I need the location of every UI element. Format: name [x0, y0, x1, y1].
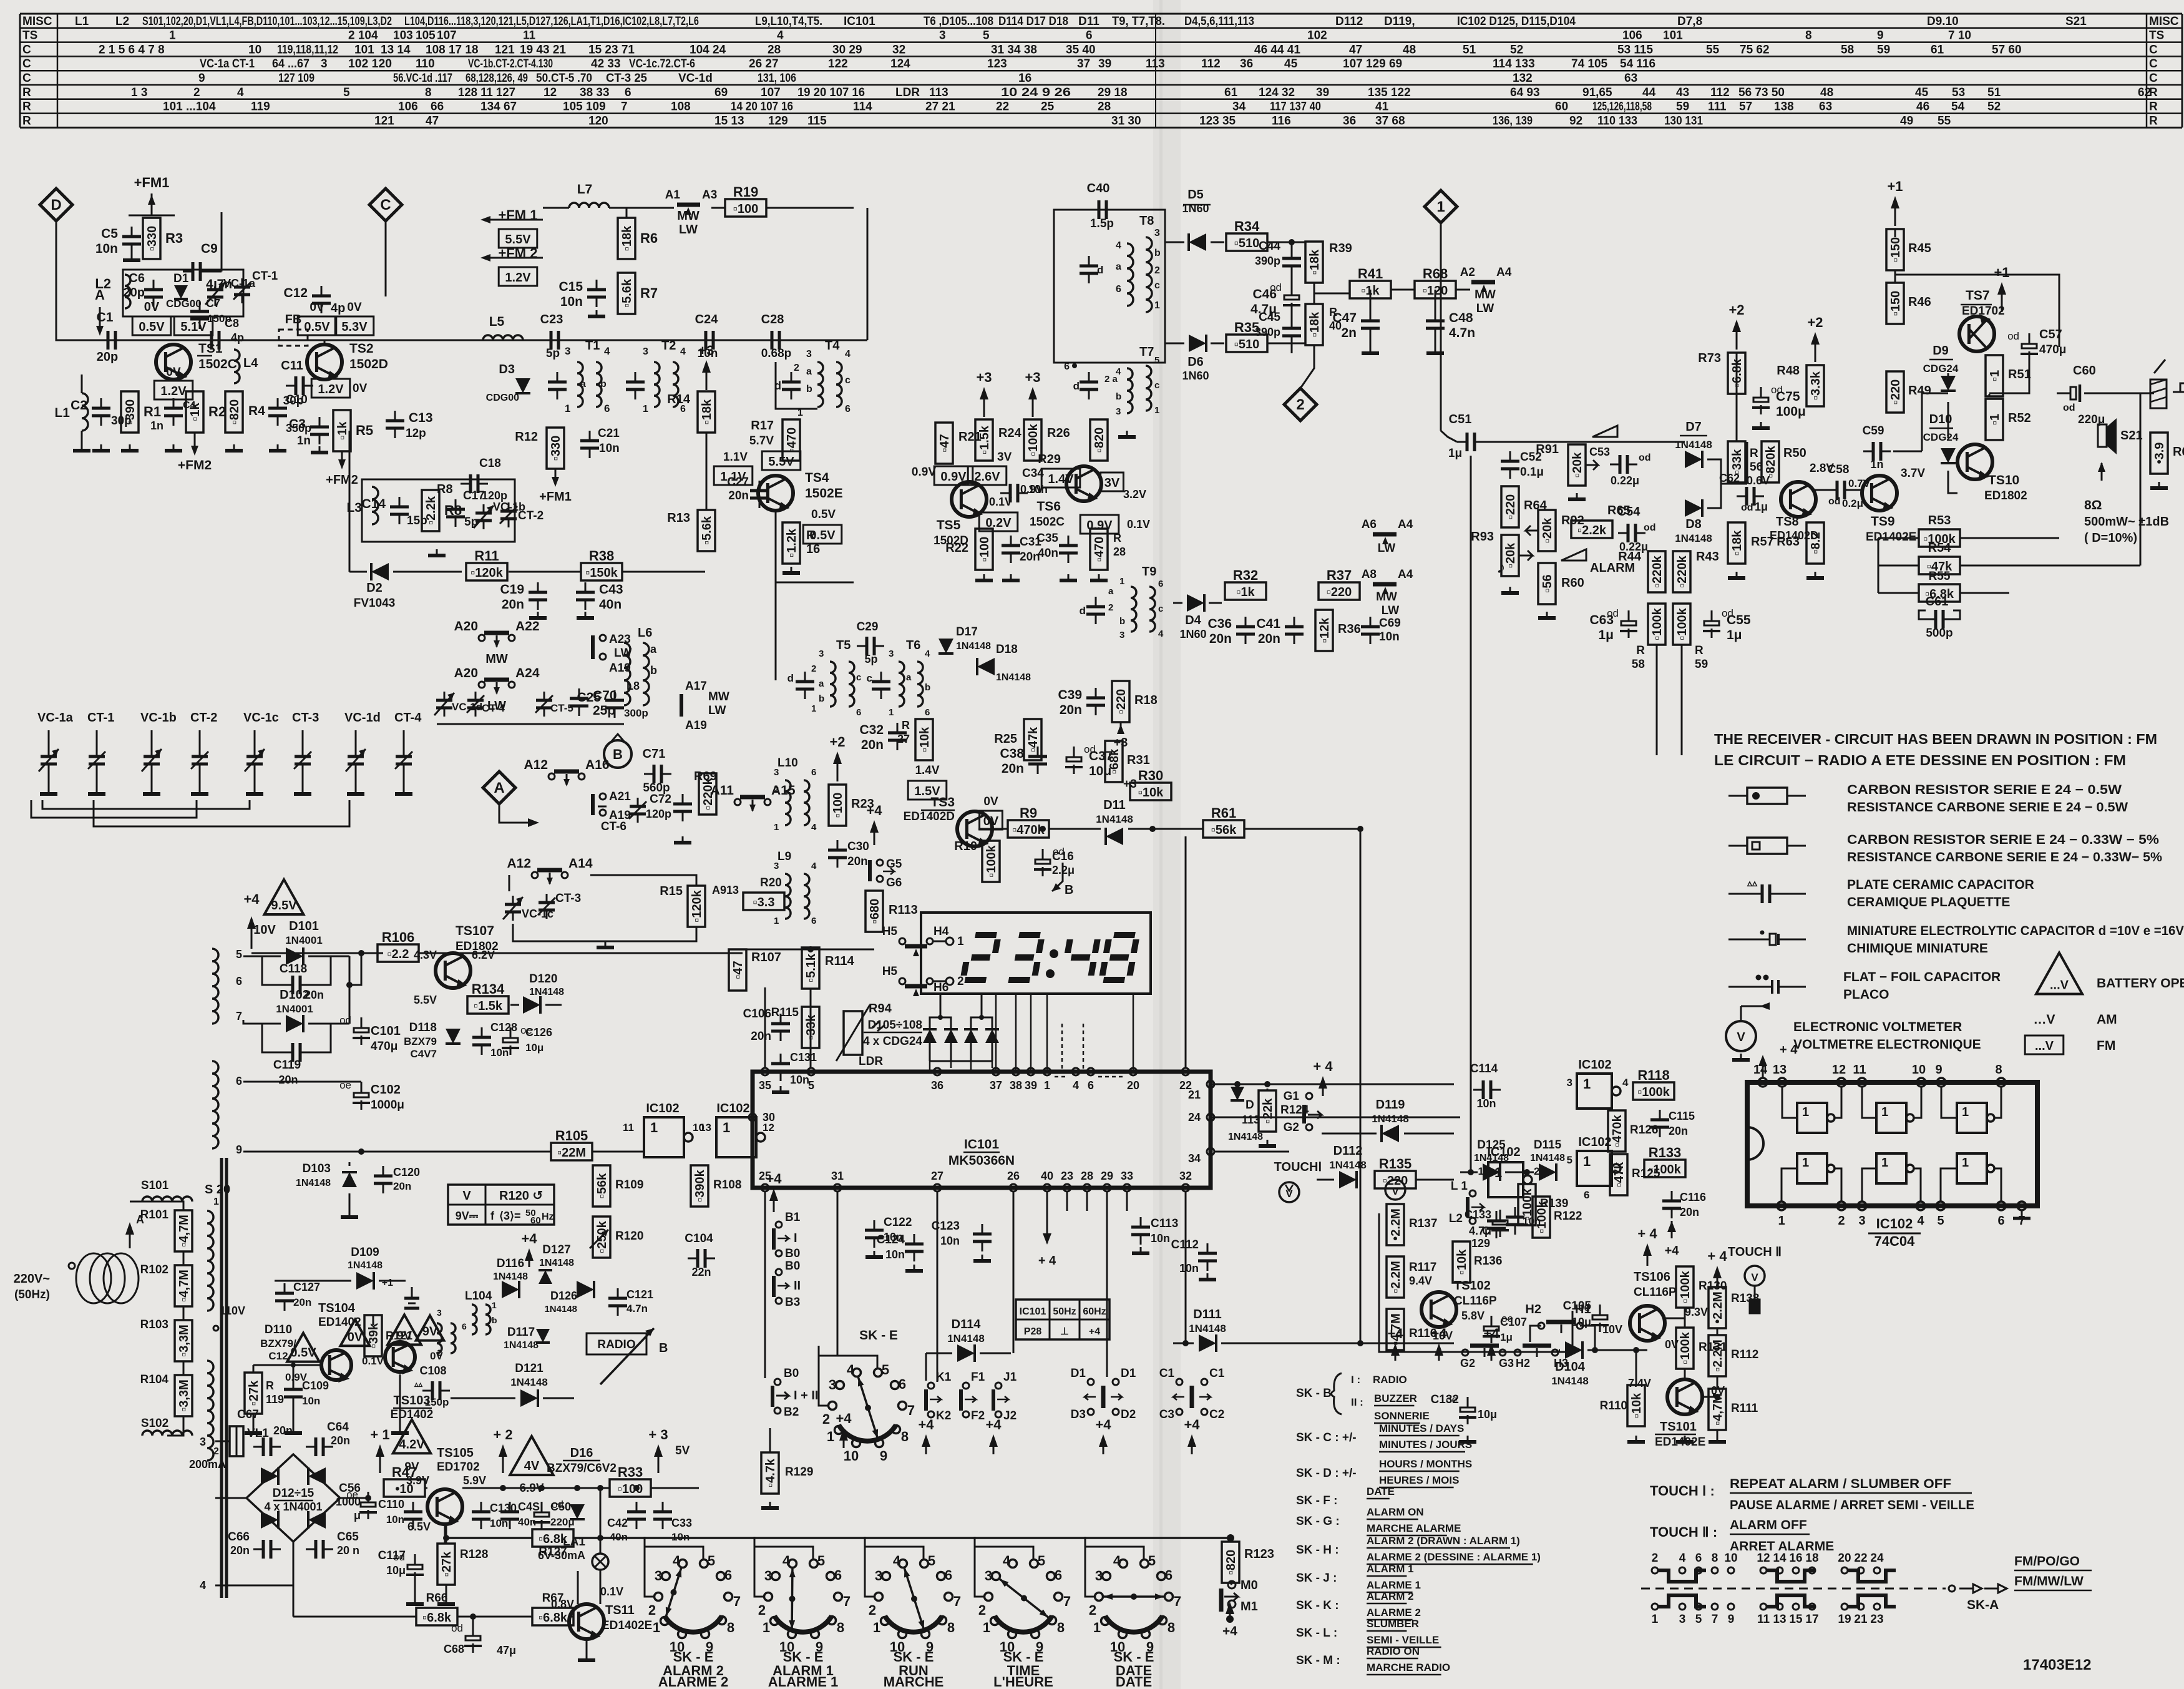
svg-text:6: 6 — [1086, 29, 1093, 42]
svg-text:3: 3 — [829, 1377, 836, 1393]
capacitor d T8 — [1080, 256, 1103, 283]
svg-text:+ 4: + 4 — [1780, 1043, 1798, 1057]
svg-text:39: 39 — [1316, 86, 1329, 99]
svg-text:R105: R105 — [555, 1128, 588, 1143]
svg-text:10 24 9 26: 10 24 9 26 — [1001, 86, 1071, 99]
svg-text:127 109: 127 109 — [278, 72, 314, 85]
svg-text:C35: C35 — [1036, 532, 1058, 545]
svg-text:10n: 10n — [1179, 1262, 1199, 1275]
svg-text:FM: FM — [2097, 1039, 2115, 1053]
svg-text:6: 6 — [1584, 1189, 1589, 1201]
switch H5 H6 — [882, 965, 964, 996]
svg-text:6: 6 — [845, 404, 851, 414]
svg-text:0.1μ: 0.1μ — [1520, 466, 1544, 479]
svg-text:5: 5 — [808, 1079, 814, 1092]
svg-text:4: 4 — [673, 1553, 681, 1569]
wire bottom tank rail — [437, 723, 624, 725]
svg-text:▫1k: ▫1k — [1236, 585, 1255, 599]
svg-text:C110: C110 — [378, 1498, 404, 1510]
resistor R73 6.8k — [1728, 353, 1745, 394]
svg-text:RESISTANCE CARBONE SERIE E: RESISTANCE CARBONE SERIE E 24 − 0.33W− 5… — [1847, 850, 2162, 864]
five rotary switches SK-E — [645, 1537, 1181, 1689]
svg-text:D118: D118 — [409, 1021, 437, 1034]
svg-text:R3: R3 — [165, 230, 183, 246]
svg-text:1N60: 1N60 — [1179, 628, 1206, 640]
switch H2 H1 upper — [1525, 1303, 1595, 1350]
svg-text:L'HEURE: L'HEURE — [993, 1674, 1053, 1689]
svg-text:R136: R136 — [1474, 1255, 1502, 1268]
svg-text:▫27k: ▫27k — [440, 1551, 454, 1577]
svg-text:30p: 30p — [283, 394, 304, 408]
svg-text:L2: L2 — [115, 15, 129, 28]
svg-text:▫4.7k: ▫4.7k — [764, 1458, 778, 1487]
capacitor C13 12p — [386, 411, 433, 440]
svg-text:2: 2 — [1089, 1602, 1096, 1618]
svg-text:BZX79: BZX79 — [404, 1035, 437, 1047]
svg-text:20n: 20n — [728, 489, 749, 502]
svg-text:0V: 0V — [310, 301, 324, 314]
svg-text:1502E: 1502E — [805, 486, 843, 501]
resistor R12 330 — [547, 428, 564, 469]
svg-text:2 1 5 6 4 7 8: 2 1 5 6 4 7 8 — [99, 43, 165, 56]
svg-text:1N4148: 1N4148 — [1329, 1159, 1367, 1171]
svg-text:101 ...104: 101 ...104 — [163, 100, 216, 114]
switch G2 G3 — [1460, 1346, 1514, 1369]
svg-text:5.8V: 5.8V — [1461, 1310, 1484, 1322]
svg-text:D12÷15: D12÷15 — [273, 1487, 314, 1500]
ALARM label with triangle — [1561, 549, 1635, 575]
svg-text:b: b — [819, 693, 824, 704]
svg-text:57 60: 57 60 — [1992, 43, 2022, 56]
svg-text:3: 3 — [437, 1308, 442, 1318]
svg-text:5.1V: 5.1V — [180, 320, 207, 334]
svg-text:R: R — [22, 100, 31, 114]
svg-text:I: I — [794, 1231, 797, 1245]
svg-text:123: 123 — [987, 57, 1007, 71]
svg-text:MARCHE RADIO: MARCHE RADIO — [1367, 1662, 1450, 1673]
svg-text:220V~: 220V~ — [14, 1272, 50, 1286]
svg-text:6: 6 — [1116, 284, 1121, 295]
TOUCH II legend — [1650, 1518, 1834, 1554]
svg-text:CT-4: CT-4 — [394, 711, 422, 725]
inductor L5 — [483, 315, 523, 340]
svg-text:▫2.2M: ▫2.2M — [1389, 1261, 1403, 1293]
resistor R33 100 — [610, 1464, 651, 1497]
svg-text:A3: A3 — [702, 188, 717, 202]
capacitor C49 40n — [500, 1501, 540, 1529]
svg-text:9V⎓: 9V⎓ — [456, 1210, 479, 1222]
gnd mixer tank — [428, 549, 446, 556]
svg-text:+4: +4 — [985, 1417, 1002, 1432]
svg-text:R: R — [22, 86, 31, 99]
capacitor C8 4p — [202, 317, 244, 350]
svg-text:0.6V: 0.6V — [1747, 474, 1770, 487]
capacitor C131 10n — [771, 1051, 817, 1092]
svg-text:C48: C48 — [1449, 311, 1473, 325]
seven segment digit 2 — [963, 935, 998, 980]
transistor TS1 1502C — [156, 341, 237, 381]
svg-text:+4: +4 — [1387, 1326, 1403, 1341]
svg-text:102: 102 — [1307, 29, 1327, 42]
svg-text:C55: C55 — [1727, 613, 1751, 627]
wire TS104 block — [245, 1315, 409, 1433]
svg-text:6: 6 — [945, 1567, 952, 1583]
svg-text:4: 4 — [925, 649, 930, 659]
lamp LA1 6V-30mA — [538, 1485, 608, 1604]
svg-text:32: 32 — [1179, 1170, 1192, 1182]
svg-text:C8: C8 — [225, 317, 239, 330]
svg-text:T1: T1 — [585, 339, 600, 353]
svg-text:7.4V: 7.4V — [1628, 1377, 1651, 1389]
legend header text — [1714, 731, 2157, 768]
svg-text:5.9V: 5.9V — [463, 1474, 486, 1487]
diode D10 CDG24 — [1923, 413, 1959, 463]
capacitor C17 5p — [446, 489, 485, 529]
svg-text:ALARM OFF: ALARM OFF — [1730, 1518, 1807, 1532]
resistor R114 5.1k — [802, 947, 819, 989]
svg-text:G6: G6 — [886, 876, 902, 889]
svg-text:MW: MW — [708, 690, 729, 703]
svg-text:CARBON RESISTOR SERIE E: CARBON RESISTOR SERIE E 24 − 0.5W — [1847, 783, 2122, 797]
diode D118 BZX79 C4V7 zener — [404, 1021, 461, 1060]
svg-text:R44: R44 — [1618, 550, 1642, 564]
svg-text:▫56k: ▫56k — [595, 1173, 609, 1198]
svg-text:P28: P28 — [1024, 1326, 1042, 1337]
capacitor C52 0.1u — [1501, 451, 1544, 479]
svg-text:D9: D9 — [1933, 344, 1949, 358]
svg-text:122: 122 — [828, 57, 848, 71]
svg-text:63: 63 — [1624, 72, 1637, 85]
svg-text:R60: R60 — [1561, 576, 1584, 590]
diode D7 1N4148 — [1675, 420, 1712, 468]
svg-text:5.5V: 5.5V — [768, 455, 794, 469]
svg-text:a: a — [1116, 262, 1121, 272]
svg-text:1: 1 — [889, 707, 894, 718]
svg-text:...V: ...V — [2035, 1039, 2054, 1053]
svg-text:c: c — [845, 375, 851, 386]
capacitor C71 560p — [643, 747, 671, 795]
resistor R13 5.6k — [698, 510, 715, 551]
svg-text:C: C — [380, 197, 391, 213]
svg-text:A4: A4 — [1398, 568, 1413, 581]
svg-text:40: 40 — [1041, 1170, 1053, 1182]
svg-text:2: 2 — [1108, 602, 1113, 613]
supply +FM1 boxed 5.5V — [480, 207, 543, 248]
svg-text:60: 60 — [1555, 100, 1568, 114]
svg-text:6: 6 — [834, 1567, 842, 1583]
svg-text:A: A — [136, 1213, 144, 1226]
svg-text:R68: R68 — [1423, 266, 1448, 281]
resistor R24 1.5k — [975, 419, 993, 461]
svg-text:43: 43 — [1676, 86, 1689, 99]
svg-text:TS104: TS104 — [318, 1301, 356, 1315]
svg-text:13: 13 — [1773, 1613, 1786, 1626]
svg-text:+2: +2 — [1728, 302, 1744, 318]
switch H2 H3 — [1514, 1346, 1568, 1369]
bridge rectifier D12-15 — [246, 1454, 340, 1542]
svg-text:▫100k: ▫100k — [1675, 607, 1689, 640]
capacitor C19 20n — [500, 582, 547, 618]
svg-text:C124: C124 — [877, 1233, 905, 1246]
wire transformer to bridge — [200, 1426, 293, 1592]
svg-text:1: 1 — [1478, 1165, 1484, 1177]
svg-text:7: 7 — [236, 1010, 242, 1022]
svg-text:LW: LW — [1382, 604, 1400, 617]
resistor R110 10k — [1627, 1385, 1645, 1426]
transistor TS3 ED1402D — [904, 764, 992, 848]
capacitor C132 10u — [1431, 1393, 1497, 1442]
resistor R61 56k — [1203, 805, 1244, 838]
svg-text:+3: +3 — [976, 370, 992, 385]
svg-text:2: 2 — [811, 663, 816, 674]
arrow B down — [1052, 863, 1073, 897]
svg-text:1: 1 — [1881, 1156, 1888, 1170]
svg-text:53 115: 53 115 — [1617, 43, 1653, 56]
svg-text:22: 22 — [1854, 1552, 1867, 1565]
svg-text:VC-1d: VC-1d — [344, 711, 381, 725]
svg-text:RESISTANCE CARBONE SERIE: RESISTANCE CARBONE SERIE E 24 − 0.5W — [1847, 800, 2128, 815]
supply +2 R48 — [1807, 315, 1823, 362]
resistor R115 33k — [802, 1007, 819, 1048]
svg-text:8: 8 — [1712, 1552, 1718, 1565]
TOUCH I legend — [1650, 1477, 1974, 1514]
svg-text:1: 1 — [723, 1120, 730, 1135]
trimmer VC-1d bottom — [434, 692, 482, 717]
svg-text:⟨3⟩=: ⟨3⟩= — [499, 1210, 521, 1222]
svg-text:a: a — [806, 366, 812, 377]
svg-text:3.2V: 3.2V — [1123, 488, 1146, 501]
svg-text:105 109: 105 109 — [563, 100, 606, 114]
seven segment digit 3 — [1008, 935, 1042, 980]
svg-text:10: 10 — [1912, 1063, 1926, 1077]
seven segment digit 4 — [1064, 939, 1098, 976]
resistor R26 100k — [1024, 419, 1041, 461]
svg-text:44: 44 — [1642, 86, 1656, 99]
svg-text:b: b — [1119, 616, 1125, 627]
svg-text:6: 6 — [1088, 1079, 1094, 1092]
svg-text:59: 59 — [1695, 658, 1708, 671]
svg-text:CT-2: CT-2 — [518, 509, 544, 522]
svg-text:14: 14 — [1773, 1552, 1787, 1565]
svg-text:R2: R2 — [208, 404, 226, 419]
svg-text:A6: A6 — [1362, 518, 1377, 531]
svg-text:D17: D17 — [956, 625, 978, 639]
svg-text:42 33: 42 33 — [591, 57, 621, 71]
svg-text:R91: R91 — [1536, 443, 1559, 456]
svg-text:▫150: ▫150 — [1889, 237, 1903, 262]
svg-text:36: 36 — [1240, 57, 1253, 71]
svg-text:C75: C75 — [1776, 389, 1800, 404]
wire +4 rail to R106 — [251, 950, 743, 956]
svg-text:R30: R30 — [1138, 768, 1163, 783]
wire R61 right — [1244, 828, 1360, 830]
svg-text:66: 66 — [431, 100, 444, 114]
supply +3 TS6 — [1025, 370, 1040, 417]
svg-text:▫100k: ▫100k — [1679, 1331, 1692, 1364]
svg-text:300p: 300p — [624, 707, 648, 719]
legend AM — [2033, 1012, 2117, 1027]
supply +1 arrow PSU — [370, 1427, 389, 1473]
gnd C3 — [311, 446, 328, 453]
svg-text:20n: 20n — [751, 1030, 771, 1043]
svg-text:C66: C66 — [228, 1530, 250, 1544]
svg-text:0.5V: 0.5V — [811, 508, 836, 521]
capacitor C36 20n — [1207, 617, 1255, 646]
svg-text:C30: C30 — [847, 840, 869, 853]
svg-text:+1: +1 — [1887, 179, 1903, 194]
diode D112 1N4148 — [1317, 1144, 1367, 1188]
svg-text:R104: R104 — [140, 1373, 169, 1386]
svg-text:4: 4 — [1679, 1552, 1686, 1565]
capacitor C35 40n — [1036, 532, 1078, 563]
svg-text:130 131: 130 131 — [1664, 114, 1703, 127]
svg-text:1502C: 1502C — [198, 357, 237, 371]
svg-text:112: 112 — [1201, 57, 1221, 71]
wires IC101 bottom pin drops — [765, 1211, 1189, 1382]
svg-text:D5: D5 — [1187, 188, 1204, 202]
svg-text:▫1: ▫1 — [1988, 414, 2002, 425]
svg-text:36: 36 — [1343, 114, 1356, 127]
svg-text:37: 37 — [990, 1079, 1002, 1092]
svg-text:46: 46 — [1916, 100, 1929, 114]
svg-text:II :: II : — [1351, 1396, 1363, 1408]
resistor R103 3.3M — [175, 1320, 192, 1361]
svg-text:55: 55 — [1706, 43, 1720, 56]
inverter IC102 a — [623, 1102, 704, 1157]
svg-text:9: 9 — [236, 1143, 242, 1156]
svg-text:D119,: D119, — [1384, 15, 1415, 28]
svg-text:8: 8 — [727, 1620, 734, 1635]
svg-text:49: 49 — [1900, 114, 1913, 127]
resistor R49 220 — [1886, 371, 1904, 413]
svg-text:C114: C114 — [1470, 1062, 1498, 1075]
svg-text:0V: 0V — [983, 795, 998, 808]
svg-text:TS5: TS5 — [937, 518, 961, 532]
svg-text:L6: L6 — [638, 626, 652, 640]
supply +2 R23 — [829, 734, 845, 781]
svg-text:D4,5,6,111,113: D4,5,6,111,113 — [1184, 15, 1254, 28]
svg-text:C4S: C4S — [518, 1501, 540, 1513]
svg-text:1N4148: 1N4148 — [947, 1333, 985, 1344]
svg-text:SK - G :: SK - G : — [1296, 1515, 1340, 1528]
svg-text:R: R — [1695, 644, 1704, 657]
diode D115 1N4148 — [1530, 1138, 1565, 1181]
svg-text:9: 9 — [1877, 29, 1884, 42]
svg-text:R112: R112 — [1731, 1348, 1758, 1361]
svg-text:MISC: MISC — [2149, 15, 2179, 28]
svg-text:D116: D116 — [497, 1257, 524, 1270]
svg-text:A1: A1 — [665, 188, 681, 202]
svg-text:1N4148: 1N4148 — [529, 987, 564, 997]
svg-text:C118: C118 — [280, 962, 307, 976]
svg-text:c: c — [856, 672, 861, 683]
svg-text:R55: R55 — [1929, 570, 1951, 583]
svg-text:+ 4: + 4 — [1038, 1254, 1056, 1268]
diode D116 1N4148 — [493, 1257, 528, 1298]
capacitor C56 1000u — [336, 1482, 377, 1522]
capacitor C129 — [1471, 1211, 1506, 1250]
svg-text:10: 10 — [1724, 1552, 1737, 1565]
TOUCH II symbol — [1728, 1245, 1782, 1313]
svg-text:▫10k: ▫10k — [918, 727, 932, 752]
diode D127 1N4148 — [521, 1231, 574, 1284]
capacitor C7 150p — [190, 297, 232, 329]
svg-text:...V: ...V — [2050, 978, 2069, 992]
svg-text:4p: 4p — [231, 331, 244, 344]
svg-text:2n: 2n — [1341, 326, 1357, 340]
capacitor C24 10n — [695, 313, 723, 360]
svg-text:2: 2 — [957, 975, 964, 988]
resistor R45 150 — [1886, 229, 1904, 270]
svg-text:5.5V: 5.5V — [505, 233, 531, 247]
svg-text:CERAMIQUE PLAQUETTE: CERAMIQUE PLAQUETTE — [1847, 895, 2010, 909]
table row R1 entries — [131, 86, 2151, 99]
svg-text:+3: +3 — [698, 343, 714, 358]
svg-text:I + II: I + II — [794, 1389, 818, 1403]
svg-text:R121: R121 — [386, 1329, 412, 1342]
svg-text:C4V7: C4V7 — [410, 1048, 437, 1060]
svg-text:b: b — [1154, 248, 1161, 258]
supply +4 triangle 9.5V 10V — [243, 879, 303, 949]
supply +1 R45 — [1887, 179, 1903, 226]
svg-text:1: 1 — [1583, 1153, 1591, 1169]
svg-text:1N60: 1N60 — [1182, 370, 1209, 382]
svg-text:470μ: 470μ — [371, 1040, 397, 1053]
switch A20 A22 MW — [454, 619, 539, 666]
svg-text:1: 1 — [1154, 300, 1160, 311]
svg-text:104 24: 104 24 — [690, 43, 726, 56]
svg-text:+4: +4 — [1222, 1624, 1237, 1638]
svg-text:C: C — [2149, 43, 2158, 56]
wire 6-9 rail — [243, 1082, 644, 1155]
svg-text:▫1k: ▫1k — [188, 402, 202, 421]
svg-text:C128: C128 — [490, 1021, 517, 1034]
svg-text:R108: R108 — [713, 1178, 741, 1192]
wire pin24 rail — [1211, 1117, 1460, 1119]
IF transformer T4 — [794, 339, 851, 418]
svg-text:f: f — [490, 1210, 495, 1222]
svg-text:200mA: 200mA — [189, 1458, 226, 1471]
svg-text:5: 5 — [983, 29, 990, 42]
svg-text:S101,102,20,D1,VL1,L4,FB,D110,: S101,102,20,D1,VL1,L4,FB,D110,101...103,… — [142, 15, 392, 28]
svg-text:C: C — [22, 72, 31, 85]
svg-text:TS102: TS102 — [1454, 1279, 1491, 1293]
svg-text:▫5.6k: ▫5.6k — [700, 516, 714, 545]
wire D to antenna line — [56, 221, 156, 340]
svg-text:15: 15 — [1789, 1613, 1803, 1626]
resistor R10 100k — [982, 841, 1000, 882]
svg-text:10μ: 10μ — [1089, 764, 1111, 778]
svg-text:10n: 10n — [1151, 1232, 1170, 1245]
svg-text:128 11 127: 128 11 127 — [458, 86, 515, 99]
svg-text:8: 8 — [425, 86, 432, 99]
svg-text:C101: C101 — [371, 1024, 401, 1038]
svg-text:VOLTMETRE ELECTRONIQUE: VOLTMETRE ELECTRONIQUE — [1793, 1037, 1981, 1052]
svg-text:LW: LW — [1476, 302, 1494, 315]
svg-text:1.2V: 1.2V — [505, 271, 531, 285]
svg-text:R51: R51 — [2008, 368, 2031, 381]
resistor R21 47 — [935, 423, 953, 464]
svg-text:TOUCHⅠ: TOUCHⅠ — [1274, 1160, 1322, 1174]
svg-text:F1: F1 — [971, 1371, 985, 1384]
svg-text:C116: C116 — [1680, 1191, 1706, 1203]
svg-text:C1: C1 — [1159, 1367, 1175, 1380]
svg-text:▫4,7M: ▫4,7M — [177, 1215, 191, 1247]
svg-text:H2: H2 — [1525, 1303, 1541, 1316]
svg-text:1N4148: 1N4148 — [1675, 439, 1712, 451]
switch B0 I+II — [773, 1367, 818, 1419]
resistor R54 47k — [1919, 557, 1960, 574]
